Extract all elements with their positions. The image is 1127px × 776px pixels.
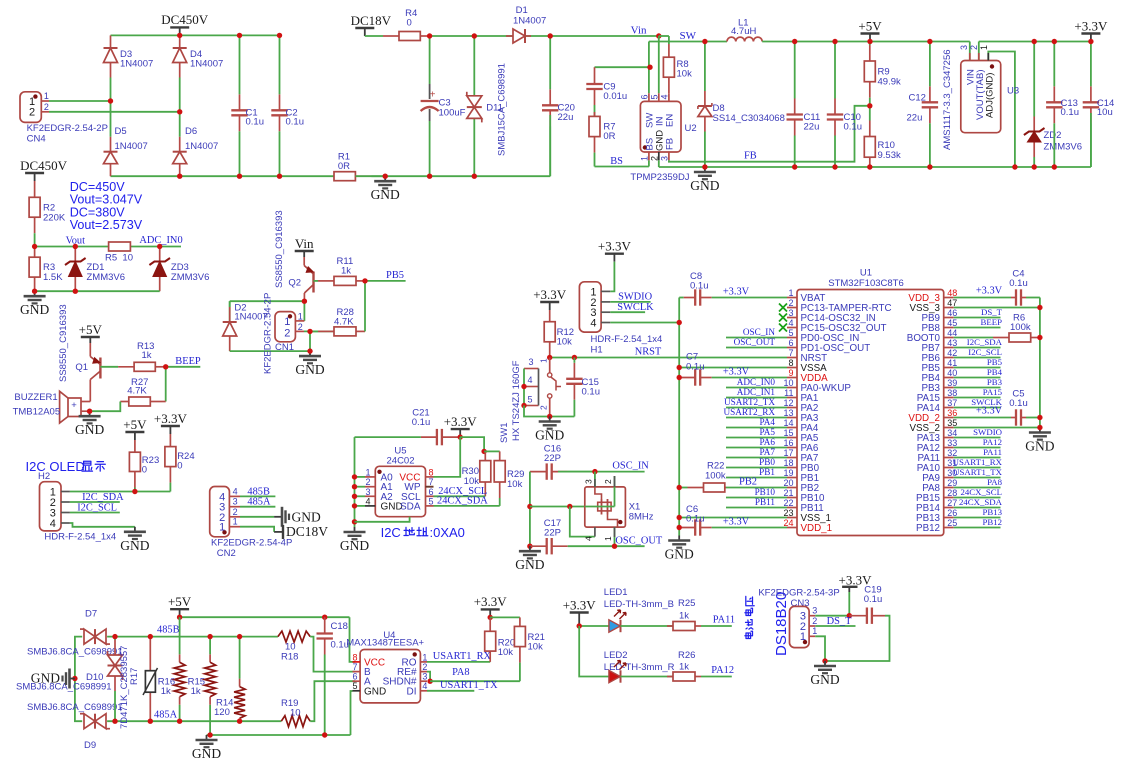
svg-text:10: 10	[290, 708, 301, 719]
svg-text:DC450V: DC450V	[20, 158, 68, 173]
svg-text:0.01u: 0.01u	[603, 91, 627, 102]
diode D6 1N4007	[179, 137, 181, 152]
svg-text:SS8550_C916393: SS8550_C916393	[274, 210, 285, 288]
svg-text:I2C_SCL: I2C_SCL	[968, 347, 1002, 357]
svg-text:FB: FB	[744, 151, 757, 162]
svg-text:485A: 485A	[154, 710, 178, 721]
svg-text:3: 3	[365, 487, 370, 497]
svg-text:1: 1	[788, 288, 793, 298]
svg-text:HX TS24ZJ 160GF: HX TS24ZJ 160GF	[511, 360, 522, 441]
svg-text:33: 33	[947, 438, 957, 448]
svg-text:38: 38	[947, 388, 957, 398]
svg-text:ZMM3V6: ZMM3V6	[171, 272, 210, 283]
svg-text:41: 41	[947, 358, 957, 368]
svg-text:1N4007: 1N4007	[185, 141, 218, 152]
svg-text:4: 4	[788, 318, 793, 328]
svg-text:2: 2	[44, 102, 49, 112]
svg-text:D9: D9	[84, 740, 96, 751]
wire H1 pin4 dot	[677, 320, 682, 325]
IC U2 TPMP2359DJ	[640, 101, 681, 152]
right net stub wires U1	[954, 317, 1001, 319]
svg-text:49.9k: 49.9k	[878, 77, 901, 88]
svg-text:1: 1	[219, 522, 225, 534]
power flag +3.3V (H1)	[613, 254, 615, 262]
TVS diode D9 SMBJ6.8CA	[94, 714, 96, 729]
schottky diode D8 SS14	[704, 91, 706, 106]
svg-text:20: 20	[783, 478, 793, 488]
junction dots bridge	[177, 33, 182, 38]
svg-text:USART1_TX: USART1_TX	[953, 467, 1002, 477]
svg-text:10k: 10k	[507, 479, 523, 490]
wire DC18V rail	[430, 35, 513, 37]
wire RE#/SHDN# tie + PA8 net	[427, 672, 430, 682]
resistor R1 0R	[333, 175, 335, 177]
svg-text:D1: D1	[516, 5, 528, 16]
svg-text:GND: GND	[340, 538, 369, 553]
svg-text:C18: C18	[331, 621, 348, 632]
resistor R20 10k	[489, 617, 491, 631]
svg-text:8: 8	[429, 467, 434, 477]
svg-text:37: 37	[947, 398, 957, 408]
connector CN4 KF2EDGR-2.54-2P	[20, 92, 41, 123]
svg-text:I2C_SCL: I2C_SCL	[77, 502, 117, 513]
wire divider bottom	[35, 290, 160, 292]
svg-text:7: 7	[788, 348, 793, 358]
svg-text:R5 10: R5 10	[105, 253, 133, 264]
junction dots input filter	[427, 33, 432, 38]
svg-text:U3: U3	[1007, 86, 1019, 97]
svg-text:SDA: SDA	[400, 501, 421, 512]
svg-text:8: 8	[788, 358, 793, 368]
svg-text:0.1u: 0.1u	[582, 387, 601, 398]
wire H1 pin1 to +3.3V	[610, 262, 614, 292]
svg-text:DS_T: DS_T	[827, 616, 852, 627]
svg-text:27: 27	[947, 498, 957, 508]
wire U2 pin2 GND	[658, 160, 660, 167]
svg-text:1k: 1k	[142, 350, 152, 361]
svg-text:7: 7	[429, 477, 434, 487]
svg-text:HDR-F-2.54_1x4: HDR-F-2.54_1x4	[44, 532, 116, 543]
wire PB5 net	[365, 280, 406, 282]
svg-text:3: 3	[788, 308, 793, 318]
svg-text:+3.3V: +3.3V	[154, 411, 188, 426]
svg-text:485A: 485A	[247, 497, 271, 508]
svg-text:GND: GND	[295, 362, 324, 377]
svg-text:GND: GND	[371, 187, 400, 202]
svg-text:14: 14	[783, 418, 793, 428]
junction dots LDO	[1012, 164, 1017, 169]
svg-text:39: 39	[947, 378, 957, 388]
left net stub wires U1	[726, 337, 787, 339]
resistor R8 10k	[668, 44, 670, 57]
wire U4 GND pin5	[351, 691, 353, 735]
buzzer BUZZER1 TMB12A05	[68, 398, 81, 417]
svg-text:22: 22	[783, 498, 793, 508]
svg-text:15: 15	[783, 428, 793, 438]
zener ZD1 ZMM3V6	[74, 247, 76, 262]
power flag +3.3V (top right)	[1090, 34, 1092, 42]
resistor R12 10k	[549, 310, 551, 322]
svg-text:45: 45	[947, 318, 957, 328]
power flag +3.3V (LEDs)	[578, 613, 580, 627]
wire CN4 pin2 to bridge	[49, 111, 180, 113]
capacitor C19 0.1u	[849, 615, 867, 617]
svg-text:0: 0	[407, 18, 412, 29]
svg-text:+3.3V: +3.3V	[1074, 18, 1108, 33]
power flag +5V (R23)	[134, 432, 136, 440]
svg-text:6: 6	[429, 487, 434, 497]
resistor R29 10k	[484, 450, 500, 452]
svg-text:21: 21	[783, 488, 793, 498]
resistor R4 0	[383, 35, 399, 37]
resistor R25 1k	[667, 625, 673, 627]
svg-text:3: 3	[959, 45, 969, 50]
svg-text:GND: GND	[292, 509, 321, 524]
svg-text:LED2: LED2	[604, 650, 628, 661]
ground GND (CN1)	[309, 351, 311, 356]
svg-text:11: 11	[784, 388, 793, 398]
svg-text:4: 4	[584, 536, 594, 541]
svg-text:Vout=2.573V: Vout=2.573V	[70, 218, 143, 232]
capacitor C14 10u	[1090, 86, 1092, 102]
wire GND rail buck output	[659, 166, 1091, 168]
svg-text:SW: SW	[680, 30, 697, 42]
svg-text:GND: GND	[120, 538, 149, 553]
svg-text:I2C OLED: I2C OLED	[26, 459, 85, 474]
svg-text:+3.3V: +3.3V	[563, 597, 597, 612]
svg-text:3: 3	[233, 497, 238, 507]
svg-text:USART2_TX: USART2_TX	[724, 397, 775, 407]
svg-text:2: 2	[298, 322, 303, 332]
wire CN1 pin2 to GND	[309, 331, 311, 351]
power flag +3.3V (R24)	[169, 426, 171, 434]
svg-text:24CX_SCL: 24CX_SCL	[960, 487, 1002, 497]
svg-text:0.1u: 0.1u	[412, 417, 431, 428]
resistor R10 9.53k	[869, 121, 871, 137]
resistor R19 10	[281, 716, 310, 727]
junction dots RS485 left	[112, 634, 117, 639]
capacitor C10 0.1u	[834, 99, 836, 115]
svg-text:0R: 0R	[603, 131, 615, 142]
svg-text:KF2EDGR-2.54-4P: KF2EDGR-2.54-4P	[211, 537, 292, 548]
svg-text:+: +	[430, 90, 436, 101]
svg-text:TMB12A05: TMB12A05	[13, 407, 61, 418]
svg-text:BS: BS	[610, 156, 623, 167]
svg-text:+3.3V: +3.3V	[723, 367, 750, 378]
svg-text:2: 2	[29, 107, 35, 119]
svg-text:+3.3V: +3.3V	[723, 287, 750, 298]
U1 right pin stubs and names	[944, 297, 954, 299]
power flag +3.3V (C21)	[459, 429, 461, 437]
ground GND (CN3)	[824, 661, 826, 666]
wire U5 left bus to GND	[354, 437, 356, 527]
wire 485B rail	[107, 636, 278, 638]
svg-text:120: 120	[214, 707, 230, 718]
svg-text:485B: 485B	[157, 625, 180, 636]
svg-text:10k: 10k	[557, 337, 573, 348]
svg-text:5: 5	[649, 94, 659, 99]
wire U5 bottom gnd stub	[355, 517, 410, 522]
svg-text:16: 16	[783, 438, 793, 448]
wire D2 bottom	[230, 350, 310, 352]
wire SWDIO net	[610, 301, 650, 303]
power flag +3.3V (R12)	[549, 302, 551, 310]
svg-text:0.1u: 0.1u	[286, 117, 305, 128]
resistor R14 120	[239, 679, 241, 687]
wire +5V line RS485	[180, 616, 350, 618]
svg-text:KF2EDGR-2.54-2P: KF2EDGR-2.54-2P	[263, 293, 274, 374]
capacitor C13 0.1u	[1053, 86, 1055, 102]
svg-text:4: 4	[365, 496, 370, 506]
svg-text:R18: R18	[281, 652, 298, 663]
svg-text:4: 4	[590, 318, 596, 330]
svg-text:EN: EN	[665, 114, 676, 127]
svg-text:4.7K: 4.7K	[334, 317, 354, 328]
svg-text:2: 2	[603, 479, 613, 484]
svg-text:1: 1	[603, 536, 613, 541]
svg-text:4: 4	[422, 681, 427, 691]
svg-text:DC450V: DC450V	[161, 12, 209, 27]
svg-text:10: 10	[783, 378, 793, 388]
svg-text:GND: GND	[690, 178, 719, 193]
svg-text:3: 3	[528, 357, 533, 367]
svg-text:1N4007: 1N4007	[120, 59, 153, 70]
svg-text:100uF: 100uF	[439, 108, 466, 119]
wire +5V rail	[870, 41, 970, 43]
resistor R5 10	[108, 246, 110, 248]
svg-text:36: 36	[947, 408, 957, 418]
svg-text:1: 1	[298, 312, 303, 322]
inductor L1 4.7uH	[727, 37, 762, 41]
svg-text:4: 4	[50, 518, 56, 530]
power flag Vin (Q2)	[303, 251, 305, 257]
svg-text:3: 3	[812, 606, 817, 616]
wire PA11 net	[701, 625, 732, 627]
svg-text:BEEP: BEEP	[980, 317, 1002, 327]
svg-text:6: 6	[788, 338, 793, 348]
diode D1 1N4007	[506, 35, 513, 37]
svg-text:ZMM3V6: ZMM3V6	[1044, 142, 1083, 153]
svg-text:H1: H1	[591, 345, 603, 356]
svg-text:24: 24	[783, 518, 793, 528]
svg-text:PB5: PB5	[987, 357, 1003, 367]
svg-text:6: 6	[639, 94, 649, 99]
wire LED2 row	[579, 626, 609, 677]
TVS diode D10 SMBJ6.8CA	[114, 640, 116, 655]
svg-text:SW1: SW1	[499, 422, 510, 443]
wire VSSA pin8 to bus	[679, 367, 787, 369]
svg-text:2: 2	[233, 507, 238, 517]
TVS diode D7 SMBJ6.8CA	[75, 637, 82, 722]
wire CN4 pin1 to bridge	[49, 100, 111, 102]
junction dot H2	[132, 489, 137, 494]
svg-text:4.7uH: 4.7uH	[731, 26, 756, 37]
svg-text:ADJ(GND): ADJ(GND)	[984, 73, 995, 118]
svg-text:1: 1	[284, 316, 290, 328]
svg-text:GND: GND	[20, 302, 49, 317]
svg-text:+3.3V: +3.3V	[976, 406, 1003, 417]
svg-text:GND: GND	[31, 671, 60, 686]
svg-text:43: 43	[947, 338, 957, 348]
power flag DC18V	[364, 28, 366, 36]
capacitor C4 0.1u on VDD_3	[954, 297, 1011, 299]
svg-text:LED-TH-3mm_R: LED-TH-3mm_R	[604, 662, 675, 673]
svg-text:47: 47	[947, 298, 957, 308]
svg-text:46: 46	[947, 308, 957, 318]
svg-text:PA5: PA5	[760, 427, 776, 437]
svg-text:STM32F103C8T6: STM32F103C8T6	[828, 278, 904, 289]
no-connect marks pins 2-4	[779, 304, 787, 312]
crystal X1 8MHz	[585, 487, 626, 527]
svg-text:AMS1117-3.3_C347256: AMS1117-3.3_C347256	[942, 49, 953, 150]
wire BS net	[595, 166, 649, 168]
svg-text:5: 5	[527, 395, 532, 405]
svg-text:48: 48	[947, 288, 957, 298]
svg-text:USART1_RX: USART1_RX	[433, 651, 492, 662]
svg-text:+5V: +5V	[123, 417, 147, 432]
svg-text:1.5K: 1.5K	[43, 272, 63, 283]
wire U1 left gnd bus	[678, 298, 680, 536]
svg-text:ZD2: ZD2	[1044, 130, 1062, 141]
resistor R15 1k	[209, 654, 211, 662]
capacitor C5 0.1u on VDD_2	[954, 417, 1011, 419]
svg-text:CN4: CN4	[27, 134, 46, 145]
svg-text:3: 3	[659, 156, 669, 161]
svg-text:0: 0	[142, 465, 147, 476]
svg-text:DI: DI	[407, 686, 417, 697]
power flag DC450V (divider)	[34, 173, 36, 181]
svg-text:+3.3V: +3.3V	[533, 287, 567, 302]
svg-text:35: 35	[947, 418, 957, 428]
wire SW net	[648, 42, 650, 94]
svg-text:PA8: PA8	[452, 667, 470, 678]
svg-text:TPMP2359DJ: TPMP2359DJ	[630, 172, 689, 183]
svg-text:9: 9	[788, 368, 793, 378]
wire 24CX_SCL net	[434, 495, 486, 497]
svg-text:7D471K_C2839557: 7D471K_C2839557	[119, 646, 130, 729]
svg-text:GND: GND	[810, 672, 839, 687]
capacitor C8 0.1u	[679, 297, 684, 299]
svg-text:Q1: Q1	[75, 362, 88, 373]
svg-text:MAX13487EESA+: MAX13487EESA+	[346, 637, 424, 648]
svg-text:GND: GND	[75, 422, 104, 437]
power flag +3.3V (R20/R21)	[489, 609, 491, 617]
svg-text:PA15: PA15	[983, 387, 1003, 397]
svg-text:SS8550_C916393: SS8550_C916393	[58, 304, 69, 382]
wire VSS_3 pin47	[954, 307, 1040, 309]
svg-text:22P: 22P	[544, 453, 561, 464]
svg-text:ZMM3V6: ZMM3V6	[87, 272, 126, 283]
resistor R7 0R	[594, 112, 596, 116]
svg-text:23: 23	[783, 508, 793, 518]
svg-text:5: 5	[429, 496, 434, 506]
svg-text:R26: R26	[678, 650, 695, 661]
svg-text:LED1: LED1	[604, 587, 628, 598]
svg-text:R17: R17	[129, 668, 140, 685]
ground GND (SW1)	[549, 417, 551, 422]
svg-text:0: 0	[177, 461, 182, 472]
svg-text:100k: 100k	[1010, 322, 1031, 333]
svg-text:GND: GND	[1025, 439, 1054, 454]
svg-text:25: 25	[947, 518, 957, 528]
svg-text:DC18V: DC18V	[286, 524, 328, 539]
svg-text:DS18B20: DS18B20	[773, 592, 790, 656]
IC U3 AMS1117-3.3	[961, 61, 1001, 133]
wire CN3 pin1 to GND	[815, 636, 825, 661]
svg-text:SMBJ6.8CA_C698991: SMBJ6.8CA_C698991	[27, 702, 123, 713]
wire R27 to buzzer	[90, 402, 121, 412]
wire gnd line RS485	[207, 734, 351, 736]
svg-text:Q2: Q2	[288, 278, 301, 289]
svg-text:1k: 1k	[679, 662, 689, 673]
svg-text:0.1u: 0.1u	[686, 362, 705, 373]
capacitor C12 22u	[929, 86, 931, 102]
svg-text:PB4: PB4	[987, 367, 1003, 377]
ground GND (crystal)	[529, 546, 531, 551]
resistor R26 1k	[667, 676, 673, 678]
svg-text:PA12: PA12	[711, 665, 734, 676]
svg-text:2: 2	[284, 327, 290, 339]
wire R19 to U4 A	[310, 681, 355, 721]
connector CN2 KF2EDGR-2.54-4P	[210, 487, 230, 537]
svg-text:19: 19	[783, 468, 793, 478]
wire U1 right gnd column	[1039, 298, 1041, 428]
svg-text:0.1u: 0.1u	[844, 121, 863, 132]
resistor R23 0	[134, 440, 136, 452]
svg-text:10k: 10k	[528, 642, 544, 653]
wire 24CX_SDA net	[434, 505, 500, 507]
wire H1 pin4 to gnd bus	[610, 322, 679, 324]
svg-text:PB5: PB5	[386, 270, 404, 281]
wire I2C_SCL net	[70, 512, 120, 514]
text battery voltage title	[745, 596, 754, 638]
svg-text:0.1u: 0.1u	[246, 117, 265, 128]
svg-text:+3.3V: +3.3V	[976, 286, 1003, 297]
svg-text:0.1u: 0.1u	[1009, 278, 1028, 289]
svg-text:+3.3V: +3.3V	[444, 414, 478, 429]
ground GND (RS485)	[206, 735, 208, 740]
wire CN2 pin2 to GND (sideways)	[240, 516, 274, 518]
svg-text:2: 2	[422, 662, 427, 672]
zener ZD3 ZMM3V6	[159, 247, 161, 262]
svg-text:0.1u: 0.1u	[690, 281, 709, 292]
svg-text:I2C: I2C	[381, 525, 401, 540]
resistor R3 1.5K	[34, 247, 36, 258]
svg-text:1: 1	[812, 626, 817, 636]
wire CN2 pin1 to DC18V (sideways)	[240, 527, 274, 532]
capacitor C9 0.01u	[595, 66, 651, 68]
diode D3 1N4007	[110, 35, 112, 48]
wire bottom rail DC18V block	[355, 175, 550, 177]
svg-text:29: 29	[947, 478, 957, 488]
svg-text:PB2: PB2	[739, 477, 757, 488]
svg-text:PA6: PA6	[760, 437, 776, 447]
svg-text:GND: GND	[192, 746, 221, 761]
svg-text:GND: GND	[665, 547, 694, 562]
svg-text:BUZZER1: BUZZER1	[14, 392, 57, 403]
junction dots Q2 block	[302, 299, 307, 304]
ground GND (divider)	[34, 291, 36, 296]
wire CN3 pin3 to +3.3V	[815, 615, 849, 617]
resistor R21 10k	[490, 616, 520, 618]
diode D5 1N4007	[110, 137, 112, 152]
svg-text:FB: FB	[665, 138, 676, 150]
wire 485A rail	[107, 720, 281, 722]
svg-text:PA7: PA7	[760, 447, 776, 457]
zener ZD2 ZMM3V6	[1033, 117, 1035, 132]
svg-text:PB12: PB12	[982, 517, 1002, 527]
svg-text:VDD_1: VDD_1	[801, 523, 833, 534]
